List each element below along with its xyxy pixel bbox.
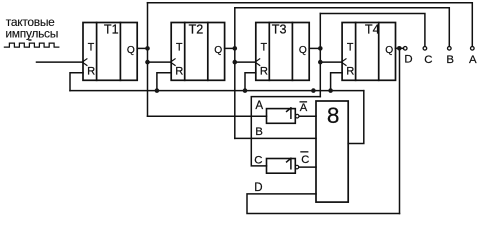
wire R input T3 xyxy=(245,73,256,91)
svg-text:C: C xyxy=(424,54,432,66)
node D column (Q4 net vertical) xyxy=(399,48,401,213)
scan speck above waveform xyxy=(28,39,31,40)
wire R input T1 xyxy=(70,73,83,91)
wire Q1 output xyxy=(137,47,147,49)
node A column (Q1 net vertical) xyxy=(147,3,149,117)
wire D row into gate xyxy=(247,194,400,214)
svg-text:Q: Q xyxy=(127,45,135,56)
svg-text:T4: T4 xyxy=(365,22,380,36)
wire T2 input xyxy=(148,61,171,63)
flip-flop T4 xyxy=(341,22,395,80)
inverter U2 (C) xyxy=(267,158,317,173)
node Q4-D xyxy=(397,46,402,51)
node T2 input xyxy=(145,60,150,65)
svg-text:A: A xyxy=(469,54,477,66)
svg-text:R: R xyxy=(260,66,268,78)
svg-text:D: D xyxy=(254,182,262,194)
wire T4 input xyxy=(320,61,341,63)
flip-flop T3 xyxy=(255,22,309,80)
label A-bar xyxy=(300,102,308,114)
terminal A xyxy=(471,47,475,51)
node B column (Q2 net vertical) xyxy=(234,8,236,139)
node Q1-A xyxy=(145,46,150,51)
wire Q2 output xyxy=(225,47,235,49)
node C column (Q3 net vertical) xyxy=(319,14,321,97)
node reset-R2 xyxy=(155,88,160,93)
svg-text:D: D xyxy=(404,54,412,66)
svg-text:T3: T3 xyxy=(272,22,287,36)
svg-text:T: T xyxy=(88,41,95,53)
node reset-R4 xyxy=(328,88,333,93)
node T4 input xyxy=(318,60,323,65)
inverter U1 (A) xyxy=(267,108,317,123)
flip-flop T2 xyxy=(170,22,224,80)
node reset (extra) xyxy=(311,88,316,93)
label B (gate input) xyxy=(255,126,263,138)
svg-text:R: R xyxy=(346,66,354,78)
wire B row into gate xyxy=(235,137,316,139)
wire clock input to T1 xyxy=(37,61,84,63)
wire reset line xyxy=(70,90,364,92)
clock label "тактовые импульсы" xyxy=(5,15,58,41)
node reset-R3 xyxy=(243,88,248,93)
wire Q4 output to terminal D xyxy=(396,47,404,49)
svg-text:C: C xyxy=(301,154,309,166)
terminal B xyxy=(448,47,452,51)
terminal C xyxy=(423,47,427,51)
node Q3-C xyxy=(318,46,323,51)
wire A row into inverter xyxy=(148,115,267,117)
gate U3 "8" (AND decode block) xyxy=(316,101,348,202)
svg-text:B: B xyxy=(446,54,454,66)
wire Q3 output xyxy=(309,47,320,49)
terminal D xyxy=(403,47,407,51)
wire R input T4 xyxy=(331,73,343,91)
label D (gate input) xyxy=(254,182,262,194)
svg-text:8: 8 xyxy=(327,103,340,128)
node T3 input xyxy=(233,60,238,65)
wire gate output xyxy=(348,91,364,144)
svg-text:T2: T2 xyxy=(189,22,204,36)
label C (gate input) xyxy=(254,155,262,167)
svg-text:импульсы: импульсы xyxy=(5,26,58,40)
svg-text:T1: T1 xyxy=(104,22,119,36)
wire C jog (top horizontal from C column) xyxy=(251,97,320,166)
svg-text:A: A xyxy=(300,102,308,114)
wire R input T2 xyxy=(157,73,171,91)
svg-text:Q: Q xyxy=(214,45,222,56)
svg-text:Q: Q xyxy=(385,45,393,56)
wire rail C xyxy=(320,14,425,47)
svg-text:B: B xyxy=(255,126,263,138)
flip-flop T1 xyxy=(82,22,137,80)
wire rail A (top) xyxy=(148,3,473,47)
label A (gate input) xyxy=(255,99,263,112)
svg-text:T: T xyxy=(261,41,268,53)
clock waveform symbol xyxy=(4,43,58,47)
svg-text:A: A xyxy=(255,99,263,112)
svg-text:T: T xyxy=(347,41,354,53)
svg-text:R: R xyxy=(175,66,183,78)
svg-text:Q: Q xyxy=(299,45,307,56)
wire rail B xyxy=(235,8,449,47)
svg-text:C: C xyxy=(254,155,262,167)
svg-text:T: T xyxy=(176,41,183,53)
node Q2-B xyxy=(233,46,238,51)
junction dots xyxy=(145,46,401,93)
label C-bar xyxy=(301,154,309,166)
wire T3 input xyxy=(235,61,255,63)
svg-text:R: R xyxy=(87,66,95,78)
